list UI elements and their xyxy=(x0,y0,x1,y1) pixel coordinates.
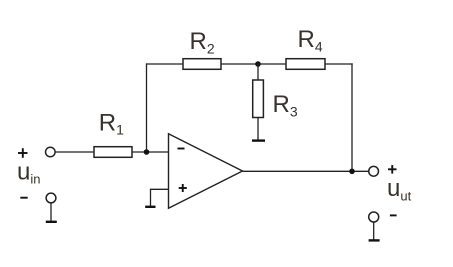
ground bar under u_in- terminal xyxy=(46,221,57,223)
wire: R4 to top-right corner xyxy=(325,63,353,65)
wire: R2 to node A xyxy=(221,63,258,65)
ground bar at non-inverting input xyxy=(145,206,155,208)
svg-text:uin: uin xyxy=(17,159,40,187)
wire: node A down to R3 xyxy=(257,64,259,80)
node C: output junction xyxy=(349,169,355,175)
wire: u_in- terminal stem down xyxy=(50,203,52,222)
wire: R3 to ground xyxy=(257,118,259,141)
label +: u_in positive xyxy=(18,148,28,158)
resistor R1 xyxy=(94,147,132,158)
op-amp U1 inverting pin mark - xyxy=(178,148,185,150)
wire: u_ut- terminal stem down xyxy=(373,222,375,240)
wire: node A to R4 xyxy=(258,63,286,65)
svg-text:R4: R4 xyxy=(298,26,323,55)
svg-text:R1: R1 xyxy=(99,109,124,137)
ground bar under u_ut- terminal xyxy=(369,239,380,241)
svg-text:R2: R2 xyxy=(190,28,215,57)
wire: top-left corner to R2 xyxy=(147,63,184,65)
op-amp U1 non-inverting pin mark + xyxy=(179,184,187,192)
node B: inverting input junction xyxy=(144,149,150,155)
resistor R4 xyxy=(286,59,325,70)
label -: u_ut negative xyxy=(390,214,397,216)
terminal: u_in negative open circle xyxy=(46,193,56,203)
svg-text:uut: uut xyxy=(387,175,412,204)
ground bar under R3 xyxy=(252,139,265,141)
resistor R3 xyxy=(253,80,264,118)
label -: u_in negative xyxy=(20,197,27,199)
wire: u_in+ terminal to R1 xyxy=(55,151,94,153)
label +: u_ut positive xyxy=(388,165,397,174)
node A: junction of R2, R3, R4 xyxy=(255,61,261,67)
op-amp U1 triangle xyxy=(169,134,243,208)
wire: left vertical feedback from corner down to inverting node xyxy=(146,63,148,152)
terminal: u_ut negative open circle xyxy=(369,212,379,222)
svg-text:R3: R3 xyxy=(273,91,298,120)
terminal: u_in positive open circle xyxy=(46,147,56,157)
wire: op-amp output to u_ut+ terminal xyxy=(243,170,369,172)
terminal: u_ut positive open circle xyxy=(369,166,379,176)
resistor R2 xyxy=(183,59,221,70)
wire: right vertical from corner down to output node xyxy=(351,63,353,171)
wire: R1 to op-amp inverting input xyxy=(132,151,169,153)
wire: non-inverting input to ground drop xyxy=(151,189,169,206)
